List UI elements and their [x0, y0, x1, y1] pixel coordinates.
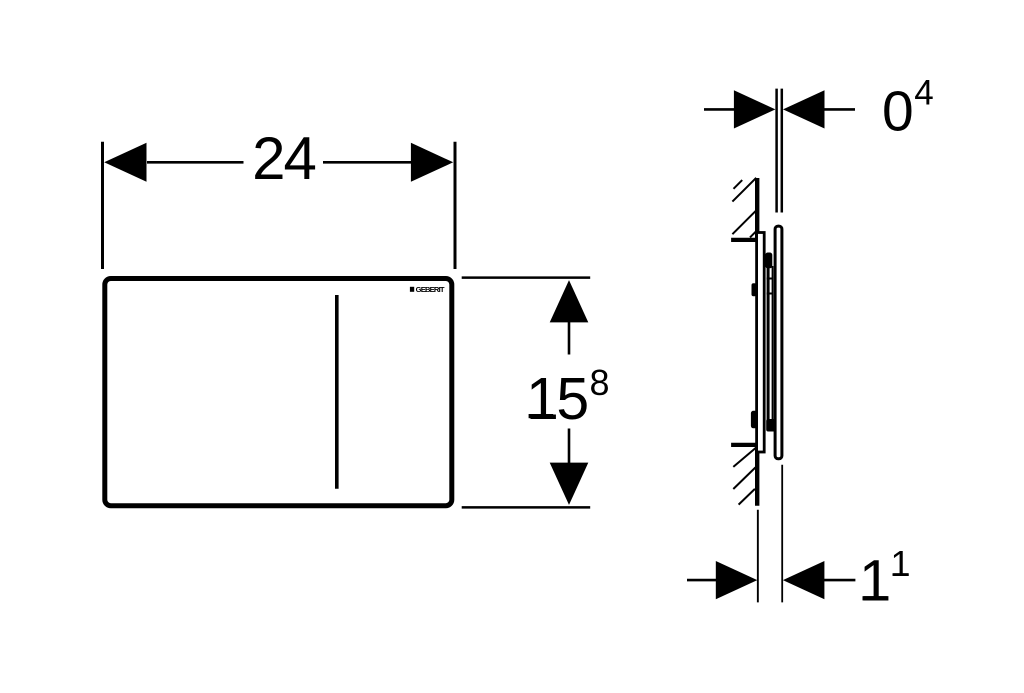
svg-text:1: 1 — [859, 549, 891, 614]
svg-text:8: 8 — [590, 362, 610, 403]
svg-text:1: 1 — [891, 543, 911, 584]
svg-text:15: 15 — [526, 366, 587, 432]
svg-text:GEBERIT: GEBERIT — [416, 285, 445, 294]
svg-text:24: 24 — [252, 125, 315, 192]
svg-text:0: 0 — [882, 80, 914, 144]
svg-text:4: 4 — [914, 73, 933, 112]
